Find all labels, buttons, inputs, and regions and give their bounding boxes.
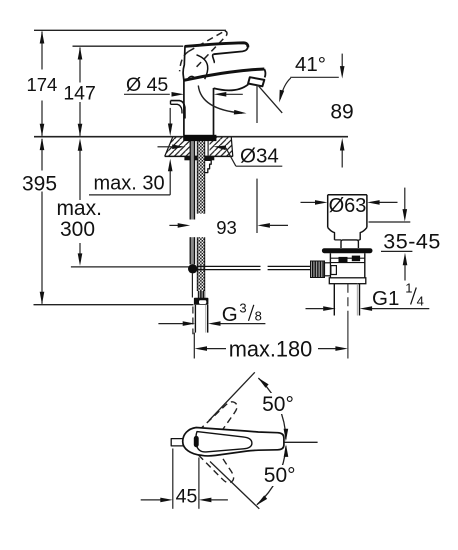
- svg-text:93: 93: [216, 217, 237, 238]
- svg-text:Ø 45: Ø 45: [126, 74, 168, 96]
- svg-text:147: 147: [63, 83, 96, 105]
- svg-text:max.: max.: [56, 197, 102, 220]
- svg-text:8: 8: [255, 308, 262, 323]
- svg-text:max. 30: max. 30: [94, 172, 165, 194]
- svg-text:Ø34: Ø34: [240, 145, 279, 168]
- svg-text:Ø63: Ø63: [329, 195, 367, 217]
- svg-text:300: 300: [60, 218, 95, 241]
- svg-text:4: 4: [417, 294, 424, 309]
- svg-text:41°: 41°: [295, 53, 326, 76]
- svg-text:50°: 50°: [262, 393, 294, 416]
- svg-text:G1: G1: [372, 287, 399, 310]
- svg-text:G: G: [222, 303, 238, 326]
- svg-text:1: 1: [405, 281, 412, 296]
- svg-text:50°: 50°: [264, 464, 296, 487]
- svg-text:395: 395: [22, 173, 57, 196]
- svg-text:3: 3: [239, 301, 246, 316]
- svg-text:max.180: max.180: [229, 337, 313, 362]
- svg-text:35-45: 35-45: [383, 230, 441, 254]
- svg-text:45: 45: [176, 486, 198, 508]
- svg-text:89: 89: [330, 100, 353, 123]
- svg-text:174: 174: [26, 74, 57, 95]
